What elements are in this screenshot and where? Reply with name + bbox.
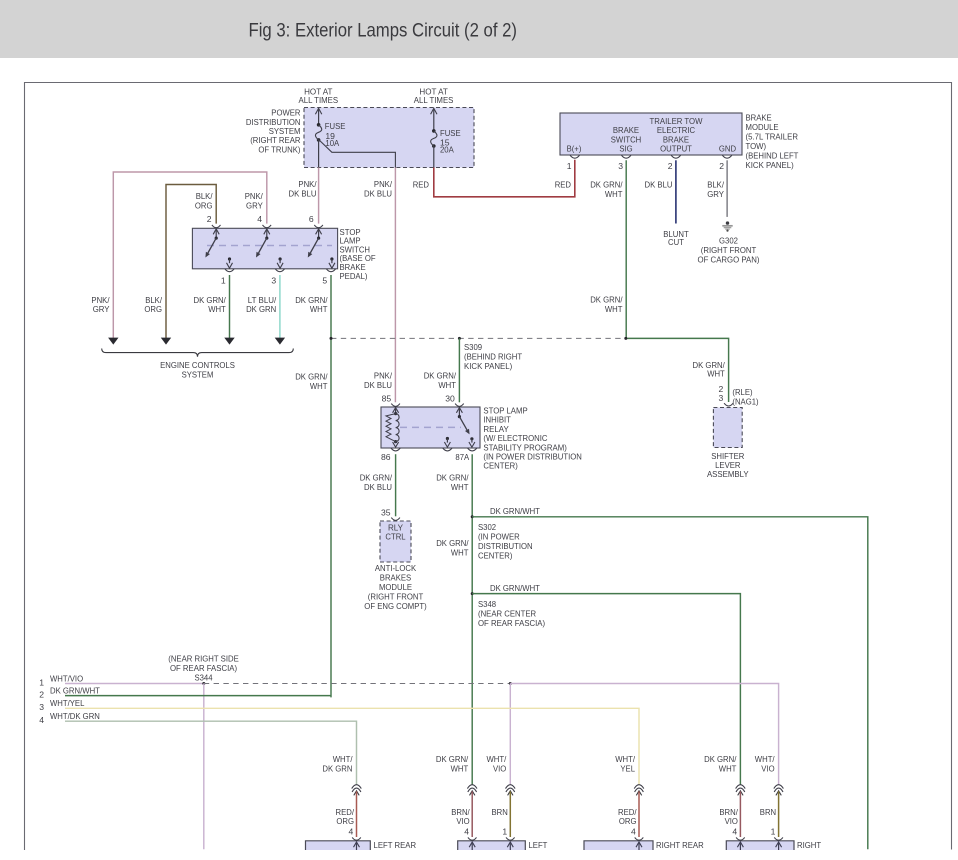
svg-text:BRN: BRN (492, 807, 508, 817)
svg-text:(RIGHT FRONT: (RIGHT FRONT (701, 245, 757, 255)
svg-text:DK GRN/: DK GRN/ (590, 179, 623, 189)
svg-text:ORG: ORG (195, 201, 213, 211)
svg-text:30: 30 (445, 394, 455, 404)
svg-text:4: 4 (349, 827, 354, 837)
svg-text:G302: G302 (719, 236, 738, 246)
svg-text:OUTPUT: OUTPUT (660, 144, 692, 154)
svg-text:MODULE: MODULE (746, 122, 779, 132)
svg-text:3: 3 (719, 393, 724, 403)
svg-text:86: 86 (381, 452, 391, 462)
svg-text:KICK PANEL): KICK PANEL) (464, 361, 512, 371)
svg-text:DK GRN/: DK GRN/ (295, 372, 328, 382)
svg-text:OF ENG COMPT): OF ENG COMPT) (364, 601, 427, 611)
svg-text:2: 2 (668, 161, 673, 171)
svg-text:S302: S302 (478, 522, 496, 532)
svg-text:GRY: GRY (707, 189, 724, 199)
svg-text:OF REAR FASCIA): OF REAR FASCIA) (478, 618, 545, 628)
svg-text:DK GRN/WHT: DK GRN/WHT (490, 506, 541, 516)
svg-text:WHT: WHT (451, 482, 469, 492)
svg-text:B(+): B(+) (567, 144, 582, 154)
svg-text:ENGINE CONTROLS: ENGINE CONTROLS (160, 360, 235, 370)
svg-text:4: 4 (464, 827, 469, 837)
svg-text:4: 4 (39, 715, 44, 725)
svg-text:BLK/: BLK/ (196, 191, 213, 201)
svg-text:87A: 87A (455, 452, 469, 462)
svg-text:WHT: WHT (605, 304, 623, 314)
svg-text:RIGHT: RIGHT (797, 840, 822, 850)
svg-text:WHT: WHT (451, 547, 469, 557)
svg-text:WHT: WHT (438, 380, 456, 390)
svg-text:20A: 20A (440, 145, 454, 155)
svg-text:WHT: WHT (719, 764, 737, 774)
svg-text:DK BLU: DK BLU (364, 482, 392, 492)
svg-text:VIO: VIO (761, 764, 775, 774)
svg-text:LEFT REAR: LEFT REAR (374, 840, 417, 850)
svg-text:WHT/VIO: WHT/VIO (50, 673, 83, 683)
svg-text:CTRL: CTRL (385, 532, 405, 542)
svg-text:DK BLU: DK BLU (645, 179, 673, 189)
svg-text:LEFT: LEFT (529, 840, 549, 850)
svg-text:PEDAL): PEDAL) (340, 271, 368, 281)
svg-text:GND: GND (719, 144, 736, 154)
svg-text:VIO: VIO (725, 816, 739, 826)
svg-text:DK GRN: DK GRN (246, 304, 276, 314)
svg-text:GRY: GRY (246, 201, 263, 211)
svg-text:(NAG1): (NAG1) (732, 396, 758, 406)
svg-text:PNK/: PNK/ (374, 371, 393, 381)
svg-text:OF TRUNK): OF TRUNK) (258, 144, 300, 154)
svg-text:3: 3 (618, 161, 623, 171)
svg-text:OF CARGO PAN): OF CARGO PAN) (698, 255, 760, 265)
svg-text:ANTI-LOCK: ANTI-LOCK (375, 563, 417, 573)
svg-text:YEL: YEL (620, 764, 635, 774)
svg-text:BRAKE: BRAKE (746, 112, 772, 122)
svg-text:2: 2 (719, 161, 724, 171)
svg-text:6: 6 (309, 214, 314, 224)
svg-text:ORG: ORG (619, 816, 637, 826)
svg-text:ASSEMBLY: ASSEMBLY (707, 469, 749, 479)
svg-text:PNK/: PNK/ (298, 179, 317, 189)
svg-text:GRY: GRY (93, 304, 110, 314)
svg-text:S344: S344 (194, 672, 212, 682)
svg-text:1: 1 (221, 276, 226, 286)
svg-text:3: 3 (39, 702, 44, 712)
svg-text:DISTRIBUTION: DISTRIBUTION (478, 541, 533, 551)
svg-text:WHT: WHT (707, 369, 725, 379)
svg-text:4: 4 (257, 214, 262, 224)
svg-text:ORG: ORG (144, 304, 162, 314)
svg-text:DK GRN/: DK GRN/ (590, 294, 623, 304)
svg-text:(IN POWER: (IN POWER (478, 531, 520, 541)
svg-text:ALL TIMES: ALL TIMES (414, 95, 454, 105)
svg-text:WHT/: WHT/ (333, 754, 353, 764)
svg-text:DK GRN/: DK GRN/ (424, 371, 457, 381)
svg-text:DK BLU: DK BLU (289, 188, 317, 198)
svg-text:(BEHIND LEFT: (BEHIND LEFT (746, 150, 800, 160)
svg-text:DK GRN/WHT: DK GRN/WHT (490, 583, 541, 593)
svg-text:FUSE: FUSE (325, 121, 346, 131)
svg-text:DK GRN/WHT: DK GRN/WHT (50, 686, 101, 696)
svg-text:35: 35 (381, 508, 391, 518)
svg-text:SYSTEM: SYSTEM (182, 369, 214, 379)
svg-text:MODULE: MODULE (379, 582, 412, 592)
svg-text:(BEHIND RIGHT: (BEHIND RIGHT (464, 352, 523, 362)
svg-text:1: 1 (39, 677, 44, 687)
svg-text:DK GRN/: DK GRN/ (360, 473, 393, 483)
svg-text:CUT: CUT (668, 237, 685, 247)
svg-text:SIG: SIG (619, 144, 633, 154)
svg-text:DK GRN/: DK GRN/ (436, 538, 469, 548)
svg-text:10A: 10A (325, 138, 339, 148)
svg-text:RED: RED (555, 179, 571, 189)
svg-text:DK BLU: DK BLU (364, 188, 392, 198)
svg-text:RED: RED (413, 179, 429, 189)
svg-text:S348: S348 (478, 599, 496, 609)
svg-text:DK GRN: DK GRN (322, 764, 352, 774)
svg-text:(5.7L TRAILER: (5.7L TRAILER (746, 131, 799, 141)
svg-text:KICK PANEL): KICK PANEL) (746, 160, 794, 170)
svg-text:3: 3 (271, 276, 276, 286)
svg-text:CENTER): CENTER) (478, 550, 513, 560)
svg-text:WHT/: WHT/ (487, 754, 507, 764)
svg-text:WHT: WHT (208, 304, 226, 314)
svg-text:85: 85 (382, 394, 392, 404)
svg-text:2: 2 (207, 214, 212, 224)
svg-text:4: 4 (732, 827, 737, 837)
svg-text:PNK/: PNK/ (374, 179, 393, 189)
svg-text:1: 1 (567, 161, 572, 171)
svg-text:WHT: WHT (451, 764, 469, 774)
svg-text:FUSE: FUSE (440, 128, 461, 138)
svg-text:VIO: VIO (493, 764, 507, 774)
svg-text:WHT/: WHT/ (755, 754, 775, 764)
svg-text:BLK/: BLK/ (707, 179, 724, 189)
svg-text:4: 4 (631, 827, 636, 837)
svg-text:RIGHT REAR: RIGHT REAR (656, 840, 704, 850)
svg-text:BRN: BRN (760, 807, 776, 817)
svg-text:WHT: WHT (310, 304, 328, 314)
svg-text:WHT: WHT (605, 189, 623, 199)
svg-text:(RIGHT FRONT: (RIGHT FRONT (368, 592, 424, 602)
svg-text:WHT/YEL: WHT/YEL (50, 698, 85, 708)
svg-text:CENTER): CENTER) (483, 461, 518, 471)
svg-text:VIO: VIO (456, 816, 470, 826)
svg-text:DK GRN/: DK GRN/ (436, 754, 469, 764)
svg-text:(NEAR CENTER: (NEAR CENTER (478, 608, 536, 618)
svg-text:Fig 3: Exterior Lamps Circuit: Fig 3: Exterior Lamps Circuit (2 of 2) (249, 20, 518, 42)
svg-text:BRAKES: BRAKES (380, 572, 412, 582)
svg-text:DK GRN/: DK GRN/ (704, 754, 737, 764)
svg-text:WHT/: WHT/ (615, 754, 635, 764)
svg-text:WHT/DK GRN: WHT/DK GRN (50, 711, 100, 721)
svg-text:DK BLU: DK BLU (364, 380, 392, 390)
svg-text:2: 2 (39, 690, 44, 700)
svg-text:ALL TIMES: ALL TIMES (299, 95, 339, 105)
svg-text:5: 5 (322, 276, 327, 286)
svg-text:ORG: ORG (336, 816, 354, 826)
svg-text:1: 1 (502, 827, 507, 837)
svg-text:TOW): TOW) (746, 141, 767, 151)
svg-text:WHT: WHT (310, 381, 328, 391)
svg-text:S309: S309 (464, 342, 482, 352)
svg-text:DK GRN/: DK GRN/ (436, 473, 469, 483)
svg-text:1: 1 (771, 827, 776, 837)
svg-text:PNK/: PNK/ (245, 191, 264, 201)
